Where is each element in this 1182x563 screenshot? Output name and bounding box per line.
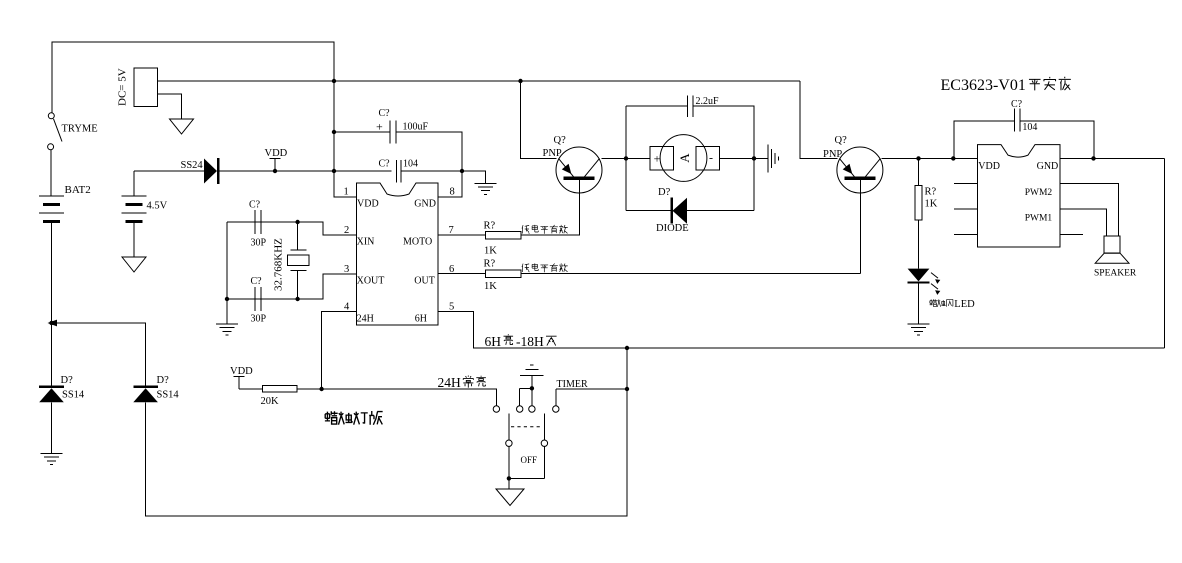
- svg-text:DIODE: DIODE: [656, 223, 689, 234]
- svg-text:-18H: -18H: [516, 334, 544, 349]
- svg-text:VDD: VDD: [265, 148, 288, 159]
- svg-text:1K: 1K: [484, 246, 497, 257]
- svg-text:2.2uF: 2.2uF: [696, 96, 720, 107]
- svg-text:30P: 30P: [251, 314, 267, 325]
- svg-text:2: 2: [344, 225, 349, 236]
- svg-text:4: 4: [344, 302, 350, 313]
- svg-text:OFF: OFF: [521, 455, 538, 465]
- svg-text:DC= 5V: DC= 5V: [117, 68, 129, 106]
- svg-text:XIN: XIN: [357, 237, 375, 248]
- svg-text:C?: C?: [1011, 99, 1023, 110]
- svg-text:7: 7: [449, 225, 454, 236]
- svg-text:-: -: [709, 151, 713, 165]
- svg-text:C?: C?: [251, 276, 263, 287]
- svg-text:GND: GND: [414, 198, 436, 209]
- svg-text:VDD: VDD: [978, 161, 1000, 172]
- svg-text:SS24: SS24: [181, 160, 204, 171]
- svg-text:104: 104: [1022, 122, 1037, 133]
- svg-text:+: +: [654, 152, 661, 166]
- svg-text:VDD: VDD: [357, 198, 379, 209]
- svg-text:D?: D?: [61, 375, 74, 386]
- svg-text:Q?: Q?: [554, 135, 567, 146]
- svg-text:20K: 20K: [261, 396, 280, 407]
- svg-text:A: A: [677, 153, 692, 163]
- svg-text:TRYME: TRYME: [62, 124, 98, 135]
- svg-text:PWM2: PWM2: [1025, 188, 1053, 198]
- svg-text:24H: 24H: [357, 314, 374, 325]
- svg-text:104: 104: [403, 159, 418, 170]
- svg-text:1K: 1K: [925, 199, 938, 210]
- svg-text:1K: 1K: [484, 281, 497, 292]
- svg-text:PWM1: PWM1: [1025, 213, 1053, 223]
- svg-text:R?: R?: [484, 259, 496, 270]
- svg-text:MOTO: MOTO: [403, 237, 432, 248]
- svg-text:5: 5: [449, 302, 454, 313]
- svg-text:LED: LED: [954, 299, 975, 310]
- svg-text:PNP: PNP: [543, 148, 562, 159]
- svg-text:6H: 6H: [485, 334, 502, 349]
- svg-text:SS14: SS14: [157, 390, 180, 401]
- svg-text:C?: C?: [249, 200, 261, 211]
- svg-text:32.768KHZ: 32.768KHZ: [273, 238, 285, 291]
- svg-text:C?: C?: [379, 108, 391, 119]
- svg-text:+: +: [376, 120, 383, 134]
- svg-text:R?: R?: [484, 221, 496, 232]
- svg-text:1: 1: [344, 187, 349, 198]
- svg-text:6H: 6H: [415, 314, 427, 325]
- svg-text:30P: 30P: [251, 238, 267, 249]
- svg-text:D?: D?: [157, 375, 170, 386]
- svg-text:SS14: SS14: [62, 390, 85, 401]
- svg-text:D?: D?: [658, 187, 671, 198]
- svg-text:3: 3: [344, 264, 349, 275]
- svg-text:TIMER: TIMER: [557, 379, 588, 390]
- svg-text:PNP: PNP: [823, 149, 842, 160]
- svg-text:Q?: Q?: [835, 135, 848, 146]
- svg-text:OUT: OUT: [414, 276, 435, 287]
- svg-text:8: 8: [450, 187, 455, 198]
- svg-text:BAT2: BAT2: [65, 184, 91, 196]
- svg-text:EC3623-V01: EC3623-V01: [941, 77, 1026, 94]
- svg-text:R?: R?: [925, 187, 937, 198]
- svg-text:100uF: 100uF: [403, 122, 429, 133]
- svg-text:C?: C?: [379, 159, 391, 170]
- svg-text:GND: GND: [1037, 161, 1059, 172]
- svg-text:VDD: VDD: [230, 366, 253, 377]
- svg-text:24H: 24H: [438, 375, 462, 390]
- svg-text:SPEAKER: SPEAKER: [1094, 269, 1137, 279]
- svg-text:XOUT: XOUT: [357, 276, 385, 287]
- svg-text:4.5V: 4.5V: [147, 201, 168, 212]
